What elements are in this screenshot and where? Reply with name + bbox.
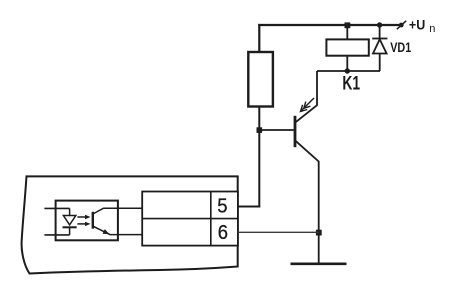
node junction (resistor/base/pin5), square dot — [257, 127, 263, 133]
diode VD1 (cathode bar + triangle, pointing up) — [372, 39, 387, 54]
node on rail to relay, square dot — [345, 22, 351, 28]
opto phototransistor base bar — [92, 212, 94, 229]
ground bar — [291, 262, 347, 265]
svg-text:6: 6 — [218, 221, 228, 244]
svg-text:+U: +U — [409, 17, 425, 33]
wire diode anode down — [379, 54, 381, 72]
wire rail to relay coil — [346, 25, 348, 39]
wire down to ground — [318, 233, 320, 264]
terminal block vertical divider — [210, 192, 212, 246]
svg-text:K1: K1 — [342, 72, 360, 94]
wire opto input top — [44, 207, 69, 209]
label +Un — [409, 17, 436, 35]
opto phototransistor collector to pin5 — [94, 208, 143, 213]
terminal +Un connector symbol — [397, 21, 406, 29]
wire base — [259, 129, 294, 131]
node on rail to diode, round dot — [377, 22, 382, 27]
device box (torn-edge outline) — [22, 176, 238, 273]
terminal block outer — [142, 192, 238, 246]
wire resistor bottom down to pin5 wire — [258, 107, 260, 207]
resistor (vertical box) — [248, 52, 273, 107]
transistor collector lead — [296, 71, 318, 122]
wire bottom of relay branch — [317, 70, 380, 72]
wire rail to diode cathode — [379, 25, 381, 39]
optocoupler box — [56, 201, 118, 241]
wire relay coil bottom — [346, 56, 348, 71]
wire pin5 out to resistor leg — [238, 206, 260, 208]
wire from rail down to resistor — [258, 24, 260, 52]
opto light arrows — [77, 215, 90, 226]
transistor VT base bar — [294, 116, 297, 147]
node relay/cathode rail, round dot — [345, 68, 350, 73]
actuation arrow (double chevron) at transistor — [301, 98, 315, 112]
svg-text:VD1: VD1 — [390, 40, 411, 56]
wire top supply rail — [258, 24, 399, 26]
terminal block horizontal divider — [142, 218, 238, 220]
svg-text:n: n — [429, 23, 435, 35]
svg-text:5: 5 — [217, 195, 227, 218]
transistor emitter lead — [296, 141, 319, 233]
opto phototransistor emitter to pin6 — [94, 226, 143, 234]
node emitter/pin6 junction, square dot — [316, 230, 322, 236]
relay coil K1 box — [326, 39, 368, 55]
wire opto input bottom — [44, 234, 69, 236]
opto LED (triangle down + bar) — [63, 208, 77, 235]
wire pin6 to emitter junction — [238, 231, 319, 233]
opto emitter arrowhead — [103, 229, 110, 234]
